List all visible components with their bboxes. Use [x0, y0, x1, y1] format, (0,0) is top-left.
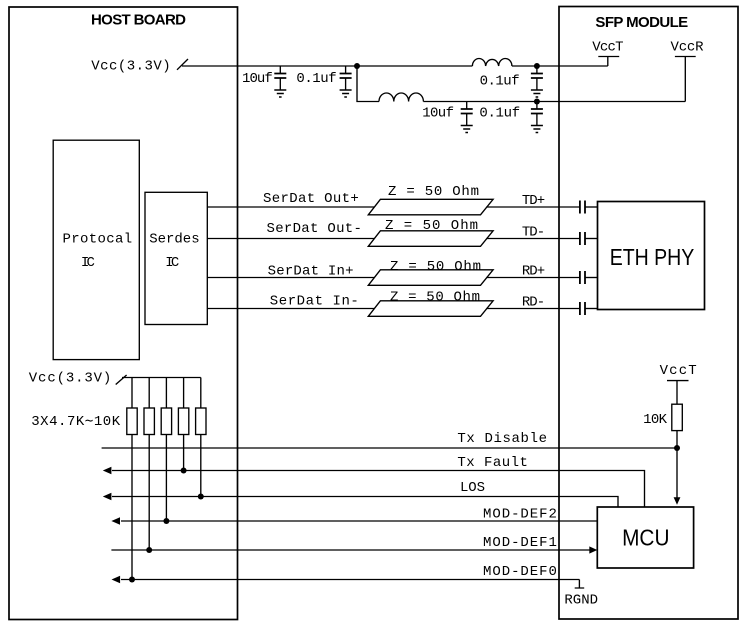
svg-text:Vcc(3.3V): Vcc(3.3V)	[29, 371, 112, 387]
capacitor C8 coupling	[580, 271, 585, 284]
svg-text:Z = 50 Ohm: Z = 50 Ohm	[388, 184, 479, 200]
resistor R3	[161, 408, 171, 435]
wire rail to resistors	[132, 378, 201, 409]
transmission line Z1	[368, 199, 493, 215]
node Tx Disable / 10K	[674, 445, 680, 451]
RGND stub	[575, 580, 585, 589]
resistor R5	[196, 408, 206, 435]
svg-text:MOD-DEF2: MOD-DEF2	[483, 507, 557, 523]
SFP module outline	[559, 7, 738, 620]
node MOD-DEF0 R1	[129, 577, 135, 583]
transmission line Z4	[368, 301, 493, 317]
arrow LOS	[103, 493, 112, 501]
wire TD- into PHY	[585, 238, 598, 240]
wire node down to MCU	[676, 448, 678, 498]
resistor R2	[144, 408, 154, 435]
svg-text:Z = 50 Ohm: Z = 50 Ohm	[390, 259, 481, 275]
svg-text:HOST BOARD: HOST BOARD	[91, 12, 186, 29]
wire 10K to Tx Disable node	[676, 431, 678, 448]
svg-text:RGND: RGND	[564, 593, 598, 609]
node after L1	[534, 63, 540, 69]
svg-text:10uf: 10uf	[242, 71, 273, 87]
node Tx Fault R4	[181, 468, 187, 474]
inductor L1	[472, 58, 512, 66]
svg-text:TD-: TD-	[522, 225, 545, 241]
wire RD-	[486, 308, 580, 310]
wire R5 down to LOS	[200, 435, 202, 497]
wire drop to lower branch	[357, 66, 379, 102]
arrow MOD-DEF0	[112, 576, 121, 584]
protocol IC U1	[53, 140, 139, 359]
svg-text:VccT: VccT	[660, 363, 697, 379]
ground C2	[340, 90, 352, 97]
svg-text:SFP MODULE: SFP MODULE	[595, 14, 688, 31]
svg-text:IC: IC	[165, 255, 179, 271]
wire Tx Fault	[112, 471, 645, 508]
wire RD+	[486, 277, 580, 279]
wire MOD-DEF1	[111, 549, 590, 551]
svg-text:0.1uf: 0.1uf	[480, 74, 520, 90]
power VccT bottom	[667, 381, 689, 405]
node MOD-DEF1 R2	[146, 547, 152, 553]
capacitor C4 10uf	[466, 102, 468, 126]
svg-text:SerDat In+: SerDat In+	[268, 264, 354, 280]
svg-text:Tx Disable: Tx Disable	[457, 431, 547, 447]
wire R3 down to MOD-DEF2	[165, 435, 167, 522]
transmission line Z2	[368, 231, 493, 247]
wire Tx Disable	[102, 447, 677, 449]
capacitor C2 0.1uf	[345, 66, 347, 90]
svg-text:Z = 50 Ohm: Z = 50 Ohm	[390, 290, 480, 306]
wire R1 down to MOD-DEF0	[131, 435, 133, 580]
svg-text:3X4.7K∼10K: 3X4.7K∼10K	[31, 414, 120, 430]
wire lower branch	[423, 101, 685, 103]
svg-text:TD+: TD+	[522, 193, 545, 209]
svg-text:Serdes: Serdes	[149, 232, 199, 248]
svg-text:SerDat Out+: SerDat Out+	[263, 191, 359, 207]
svg-text:LOS: LOS	[460, 480, 485, 496]
arrow MOD-DEF2	[111, 517, 120, 525]
wire TD+ into PHY	[585, 206, 598, 208]
node top junction	[354, 63, 360, 69]
node MOD-DEF2 R3	[163, 518, 169, 524]
wire R4 down to Tx Fault	[183, 435, 185, 471]
capacitor C6 coupling	[580, 201, 585, 214]
svg-text:VccR: VccR	[671, 40, 705, 56]
wire SerDat In-	[207, 308, 374, 310]
resistor R4	[178, 408, 188, 435]
wire TD+	[486, 206, 580, 208]
power tap slash bottom	[116, 375, 127, 385]
svg-text:IC: IC	[81, 255, 95, 271]
capacitor C1 10uf	[279, 66, 281, 90]
power tap slash top	[177, 59, 188, 70]
svg-text:VccT: VccT	[592, 40, 623, 56]
capacitor C9 coupling	[580, 302, 585, 315]
wire RD+ into PHY	[585, 277, 598, 279]
wire MOD-DEF2	[121, 520, 597, 522]
capacitor C7 coupling	[580, 232, 585, 245]
wire SerDat Out+	[207, 206, 374, 208]
wire Vcc(3.3V) top rail	[182, 65, 357, 67]
host board outline	[9, 7, 238, 620]
ground C4	[461, 126, 473, 133]
svg-text:10uf: 10uf	[422, 106, 454, 122]
svg-text:Vcc(3.3V): Vcc(3.3V)	[91, 59, 170, 75]
node LOS R5	[198, 494, 204, 500]
wire SerDat In+	[207, 277, 374, 279]
svg-text:MOD-DEF0: MOD-DEF0	[483, 564, 557, 580]
transmission line Z3	[368, 270, 493, 286]
svg-text:MOD-DEF1: MOD-DEF1	[483, 535, 557, 551]
ground C5	[531, 126, 543, 133]
wire MOD-DEF0	[121, 579, 579, 581]
arrow into MCU top	[674, 497, 681, 505]
wire TD-	[486, 238, 580, 240]
resistor R6 10K	[672, 404, 683, 430]
resistor R1	[127, 408, 137, 435]
svg-text:Tx Fault: Tx Fault	[457, 455, 528, 471]
ETH PHY U3	[598, 202, 705, 310]
node lower branch	[534, 99, 540, 105]
ground C3	[531, 90, 543, 97]
svg-text:MCU: MCU	[622, 525, 669, 551]
wire LOS	[112, 497, 618, 508]
svg-text:Z = 50 Ohm: Z = 50 Ohm	[385, 218, 478, 234]
svg-text:0.1uf: 0.1uf	[296, 71, 336, 87]
wire pullup rail	[122, 377, 201, 379]
svg-text:SerDat In-: SerDat In-	[270, 294, 359, 310]
power VccR top	[675, 57, 696, 102]
svg-text:ETH PHY: ETH PHY	[610, 244, 695, 270]
MCU U4	[597, 507, 693, 568]
wire SerDat Out-	[207, 238, 374, 240]
inductor L2	[379, 93, 423, 102]
svg-text:RD+: RD+	[522, 264, 545, 280]
arrow Tx Fault	[103, 467, 112, 475]
ground C1	[274, 90, 286, 97]
svg-text:RD-: RD-	[522, 295, 545, 311]
svg-text:0.1uf: 0.1uf	[479, 106, 520, 122]
power VccT top	[598, 57, 619, 67]
arrow MOD-DEF1 into MCU	[589, 546, 597, 553]
wire after L1	[512, 65, 608, 67]
svg-text:Protocal: Protocal	[63, 232, 133, 248]
wire RD- into PHY	[585, 308, 598, 310]
svg-text:10K: 10K	[643, 412, 667, 428]
wire top branch	[357, 65, 472, 67]
svg-text:SerDat Out-: SerDat Out-	[267, 221, 362, 237]
serdes IC U2	[145, 192, 207, 324]
capacitor C3 0.1uf	[536, 66, 538, 90]
wire R2 down to MOD-DEF1	[148, 435, 150, 551]
capacitor C5 0.1uf	[536, 102, 538, 126]
